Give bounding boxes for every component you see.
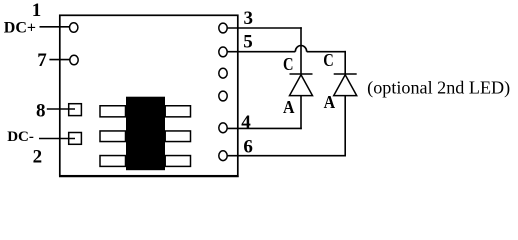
IC U1 left lead 3 — [100, 156, 126, 167]
IC U1 left lead 1 — [100, 106, 126, 117]
svg-text:4: 4 — [241, 112, 251, 133]
pin 2 (DC-) pad — [69, 133, 82, 145]
svg-text:2: 2 — [33, 147, 43, 168]
pin 5 wire vertical to LED2 — [344, 51, 346, 74]
pin 4 pad — [219, 123, 227, 133]
pin 3 wire vertical to LED1 — [300, 27, 302, 74]
pin 7 pad — [70, 55, 78, 65]
svg-text:7: 7 — [37, 50, 47, 71]
unlabeled pad B — [219, 91, 227, 101]
pin 5 wire segment b — [307, 51, 346, 53]
module outline — [60, 15, 238, 176]
pin 7 wire — [49, 59, 69, 61]
IC U1 right lead 2 — [165, 131, 190, 142]
LED1 cathode bar — [290, 73, 313, 75]
svg-text:5: 5 — [243, 32, 253, 53]
svg-text:C: C — [283, 54, 294, 74]
svg-text:1: 1 — [32, 0, 42, 21]
LED2 anode wire down — [344, 96, 346, 157]
svg-text:3: 3 — [244, 8, 254, 29]
LED2 triangle — [334, 75, 357, 96]
pin 8 wire — [47, 108, 75, 110]
svg-text:DC-: DC- — [7, 129, 34, 145]
pin 1 wire — [40, 26, 70, 28]
LED1 anode wire down — [300, 96, 302, 130]
svg-text:A: A — [283, 97, 295, 117]
svg-text:8: 8 — [36, 100, 46, 121]
pin 6 wire — [228, 155, 346, 157]
pin 4 wire — [228, 127, 302, 129]
pin 6 pad — [219, 151, 227, 161]
svg-text:DC+: DC+ — [4, 20, 36, 37]
IC U1 right lead 1 — [165, 106, 190, 117]
IC U1 left lead 2 — [100, 131, 126, 142]
pin 5 pad — [219, 47, 227, 57]
pin 1 pad — [70, 23, 78, 33]
svg-text:(optional 2nd LED): (optional 2nd LED) — [367, 78, 510, 99]
LED1 triangle — [290, 75, 313, 96]
IC U1 body — [126, 97, 165, 171]
pin 8 pad — [69, 104, 82, 116]
svg-text:C: C — [323, 50, 334, 70]
svg-text:6: 6 — [243, 137, 253, 158]
svg-text:A: A — [324, 92, 336, 112]
IC U1 right lead 3 — [165, 156, 190, 167]
pin 5 wire segment a — [228, 51, 296, 53]
pin 3 wire horizontal — [228, 27, 302, 29]
pin 2 (DC-) wire — [39, 138, 75, 140]
pin 3 pad — [219, 23, 227, 33]
LED2 cathode bar — [334, 73, 357, 75]
pin 5 wire hop over pin 3 wire — [295, 45, 306, 51]
unlabeled pad A — [219, 68, 227, 78]
